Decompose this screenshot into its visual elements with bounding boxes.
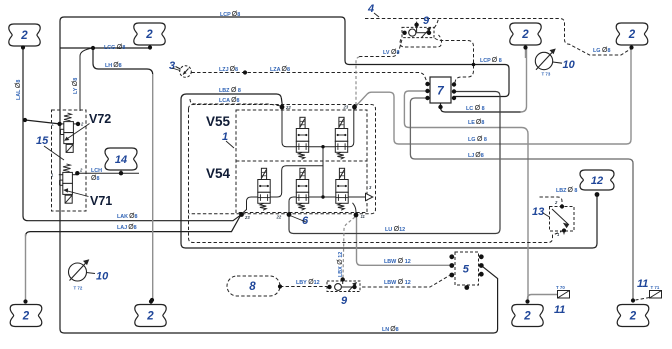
svg-text:22: 22 xyxy=(285,105,291,110)
svg-text:2: 2 xyxy=(523,311,531,323)
svg-text:LU Ø12: LU Ø12 xyxy=(385,226,405,233)
svg-text:2: 2 xyxy=(22,311,30,323)
svg-text:V71: V71 xyxy=(90,194,112,208)
svg-text:23: 23 xyxy=(343,105,349,110)
svg-text:LZAØ8: LZAØ8 xyxy=(270,66,290,73)
svg-text:LBW Ø 12: LBW Ø 12 xyxy=(384,279,411,286)
svg-text:8: 8 xyxy=(249,281,256,293)
svg-text:15: 15 xyxy=(36,135,49,147)
svg-text:LG Ø8: LG Ø8 xyxy=(593,47,610,54)
svg-text:11: 11 xyxy=(554,304,565,316)
svg-text:LAKØ8: LAKØ8 xyxy=(117,213,138,220)
svg-text:1: 1 xyxy=(222,131,228,143)
svg-text:23: 23 xyxy=(244,215,250,220)
svg-text:2: 2 xyxy=(146,311,154,323)
svg-text:Ø8: Ø8 xyxy=(91,175,99,182)
svg-text:2: 2 xyxy=(20,30,28,42)
svg-text:12: 12 xyxy=(591,175,603,187)
svg-text:LCH: LCH xyxy=(91,168,102,174)
svg-text:LAJØ8: LAJØ8 xyxy=(117,224,137,231)
svg-text:V55: V55 xyxy=(206,114,231,129)
svg-text:V72: V72 xyxy=(89,112,111,126)
svg-text:LJØ8: LJØ8 xyxy=(468,152,484,159)
svg-text:13: 13 xyxy=(532,206,544,218)
svg-text:11: 11 xyxy=(361,214,366,219)
svg-text:LV Ø8: LV Ø8 xyxy=(383,49,399,56)
svg-text:10: 10 xyxy=(96,271,109,283)
svg-text:LZJØ8: LZJØ8 xyxy=(219,66,238,73)
svg-text:5: 5 xyxy=(463,264,470,276)
svg-text:4: 4 xyxy=(367,3,374,15)
svg-text:LNØ8: LNØ8 xyxy=(382,326,399,333)
svg-text:2: 2 xyxy=(628,29,636,41)
svg-text:LEØ8: LEØ8 xyxy=(468,119,484,126)
svg-text:2: 2 xyxy=(629,311,637,323)
svg-text:T 72: T 72 xyxy=(74,286,83,291)
svg-text:V54: V54 xyxy=(206,166,231,181)
svg-text:LBW Ø 12: LBW Ø 12 xyxy=(384,258,411,265)
svg-text:22: 22 xyxy=(276,215,282,220)
svg-text:LCPØ8: LCPØ8 xyxy=(220,11,240,18)
svg-text:10: 10 xyxy=(563,59,576,71)
svg-text:9: 9 xyxy=(341,295,348,307)
svg-text:LC Ø 8: LC Ø 8 xyxy=(466,105,485,112)
svg-text:LCPØ 8: LCPØ 8 xyxy=(480,57,502,64)
svg-text:3: 3 xyxy=(169,60,175,72)
svg-text:LBX Ø 12: LBX Ø 12 xyxy=(337,252,344,277)
svg-text:LBY Ø12: LBY Ø12 xyxy=(296,279,320,286)
svg-text:LAL Ø8: LAL Ø8 xyxy=(15,80,22,100)
svg-text:LCAØ8: LCAØ8 xyxy=(219,97,240,104)
svg-text:11: 11 xyxy=(637,278,648,290)
svg-text:LBZØ 8: LBZØ 8 xyxy=(556,187,577,194)
svg-text:T 70: T 70 xyxy=(556,285,565,290)
svg-text:LCG Ø8: LCG Ø8 xyxy=(104,44,125,51)
svg-text:LHØ8: LHØ8 xyxy=(105,62,122,69)
svg-text:14: 14 xyxy=(115,154,127,166)
svg-text:9: 9 xyxy=(423,15,430,27)
svg-text:2: 2 xyxy=(145,29,153,41)
svg-text:T 73: T 73 xyxy=(542,72,551,77)
svg-text:LY Ø8: LY Ø8 xyxy=(72,78,79,94)
svg-text:T 71: T 71 xyxy=(651,285,660,290)
svg-text:LBZ Ø 8: LBZ Ø 8 xyxy=(219,87,241,94)
svg-text:LG Ø 8: LG Ø 8 xyxy=(468,136,487,143)
svg-text:2: 2 xyxy=(521,29,529,41)
